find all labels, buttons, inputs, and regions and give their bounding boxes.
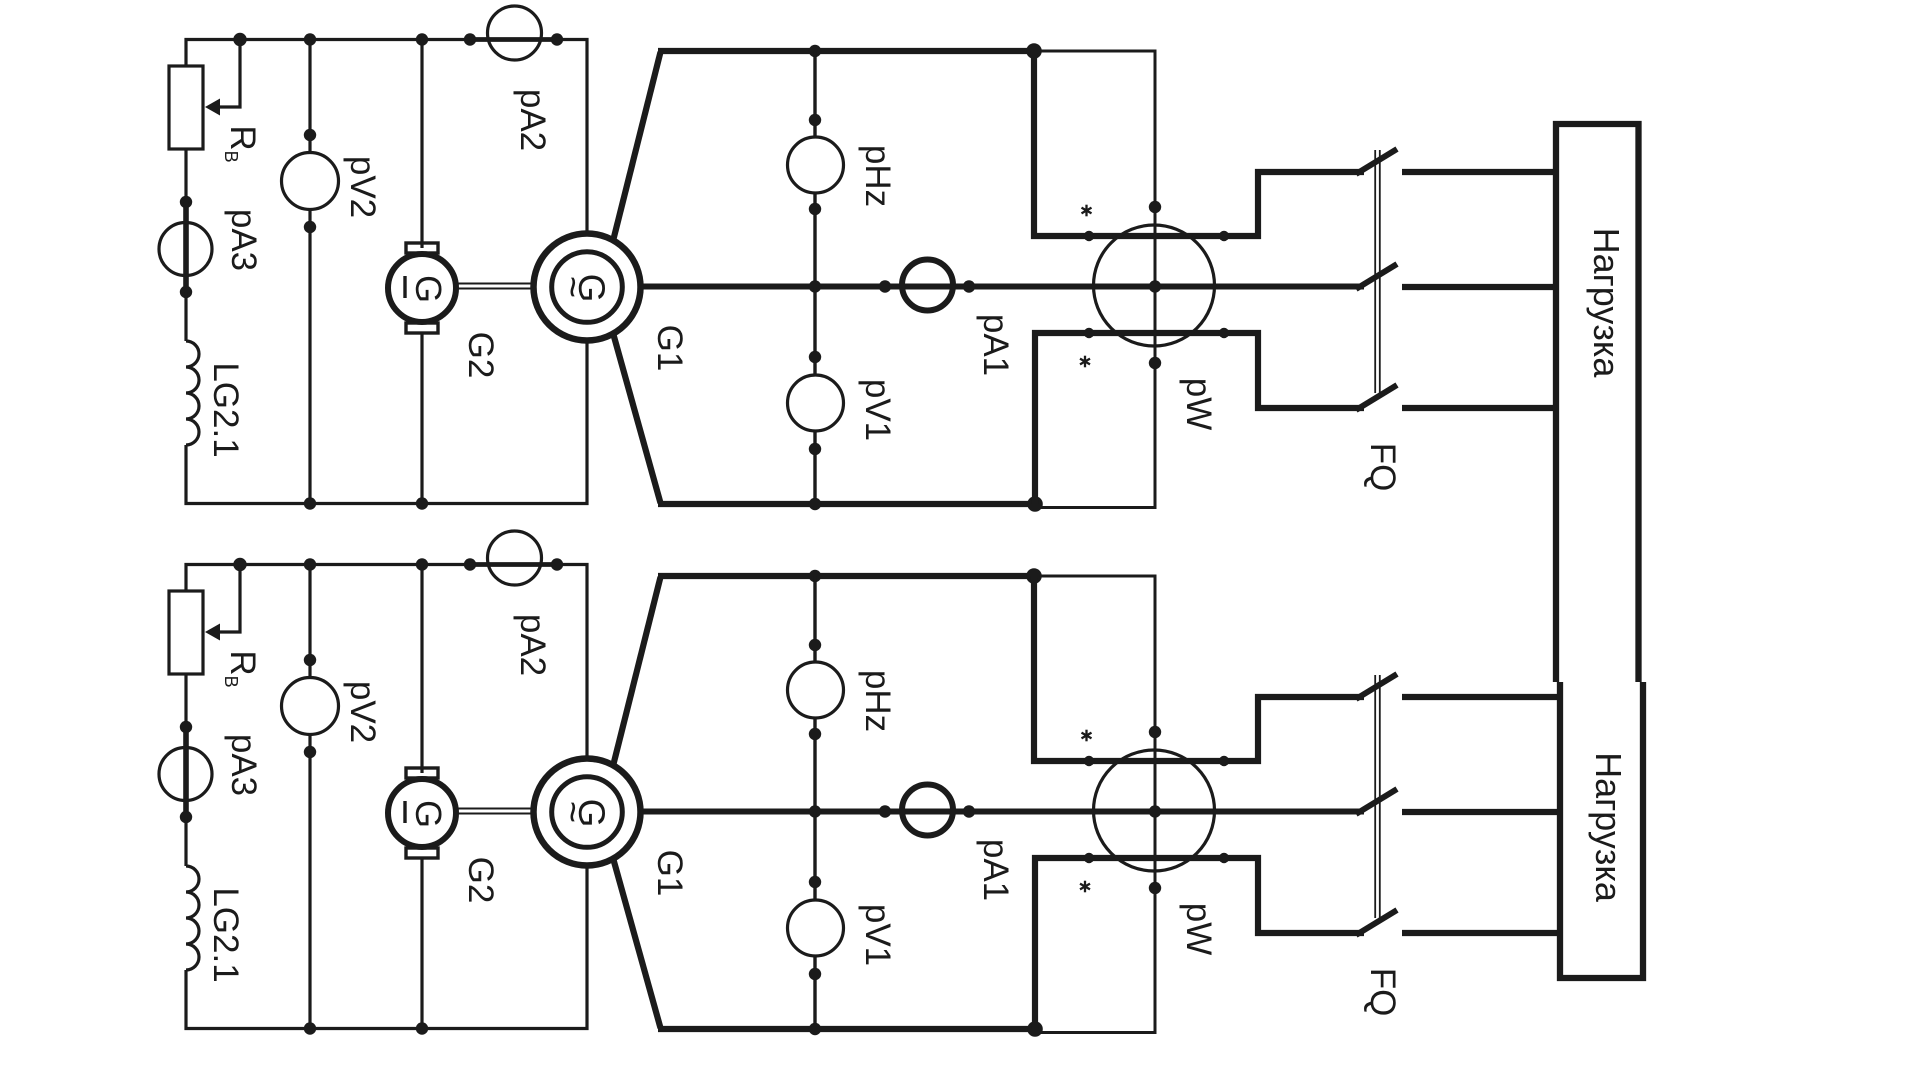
wire phase A line (bottom): [658, 573, 1034, 579]
load box Нагрузка (top): [1556, 124, 1639, 682]
svg-text:pA1: pA1: [976, 839, 1015, 901]
svg-text:pV1: pV1: [858, 379, 897, 441]
G2 DC bar symbol (top): [403, 276, 406, 298]
svg-text:Нагрузка: Нагрузка: [1588, 752, 1629, 903]
node pW bottom voltage terminal (top): [1149, 357, 1161, 369]
node pA1 right terminal (top): [963, 280, 975, 292]
wire G2 branch lower (bottom): [420, 858, 423, 1029]
node pW top coil right terminal (bottom): [1219, 756, 1229, 766]
node pHz phase A junction (bottom): [809, 570, 821, 582]
node pV2 top rail junction (top): [304, 33, 316, 45]
ammeter pA3 circle (top): [159, 223, 212, 276]
G2 lower brush (bottom): [406, 848, 438, 858]
wire phase C rise to pW bottom coil (top): [1035, 333, 1364, 504]
wire bottom rail of excitation circuit (bottom): [186, 863, 587, 1029]
svg-text:pHz: pHz: [858, 670, 897, 732]
svg-text:~: ~: [551, 801, 593, 823]
pW polarity asterisk bottom (bottom): [1084, 881, 1086, 893]
generator G1 outer circle (top): [534, 234, 641, 341]
svg-text:pV1: pV1: [858, 904, 897, 966]
switch FQ pole 1 blade (bottom): [1356, 674, 1397, 699]
wire RB to pA3 (top): [184, 149, 187, 204]
wire pV1 branch (top): [813, 287, 816, 505]
switch FQ linkage bar (bottom): [1375, 675, 1380, 918]
wire pW voltage tap thin loop (top): [1034, 51, 1155, 508]
wire phase A drop to pW top coil (bottom): [1034, 576, 1364, 761]
svg-text:Нагрузка: Нагрузка: [1586, 228, 1627, 379]
wire FQ pole 1 to load (bottom): [1402, 694, 1559, 700]
node G2 bottom rail junction (bottom): [416, 1022, 428, 1034]
inductor LG2.1 coil (bottom): [186, 866, 199, 970]
ammeter pA2 circle (bottom): [488, 531, 542, 585]
wire phase B line (top): [638, 284, 1364, 290]
node pV2 lower terminal (top): [304, 221, 316, 233]
wire thick through ammeter pA2 (top): [470, 37, 557, 42]
svg-text:pA3: pA3: [224, 209, 263, 271]
wire pV2 branch (bottom): [308, 565, 311, 1029]
ammeter pA3 circle (bottom): [159, 748, 212, 801]
G2 lower brush (top): [406, 323, 438, 333]
node pW bottom coil right terminal (top): [1219, 328, 1229, 338]
wire pHz branch (top): [813, 51, 816, 287]
wire pHz branch (bottom): [813, 576, 816, 812]
node pHz phase A junction (top): [809, 45, 821, 57]
ammeter pA1 circle (bottom): [902, 785, 953, 836]
wire phase C line (top): [658, 501, 1035, 507]
node pHz lower terminal (bottom): [809, 728, 821, 740]
node RB wiper tap junction (top): [233, 33, 246, 46]
node pW top coil right terminal (top): [1219, 231, 1229, 241]
node pA2 right terminal (bottom): [551, 558, 563, 570]
svg-text:pV2: pV2: [343, 156, 382, 218]
voltmeter pV2 circle (top): [282, 153, 339, 210]
wire G1 top slant (top): [613, 52, 661, 241]
generator G2 circle (top): [388, 254, 456, 322]
node pA2 left terminal (top): [464, 33, 476, 45]
pW polarity asterisk bottom (top): [1084, 356, 1086, 368]
shaft coupling G2-G1 (top): [458, 284, 532, 289]
wire phase B line (bottom): [638, 809, 1364, 815]
node pV1 phase C junction (top): [809, 498, 821, 510]
switch FQ pole 2 blade (top): [1356, 264, 1397, 289]
node pV2 upper terminal (top): [304, 129, 316, 141]
load box Нагрузка (bottom): [1560, 682, 1643, 978]
node pHz lower terminal (top): [809, 203, 821, 215]
ammeter pA1 circle (top): [902, 260, 953, 311]
node pA2 left terminal (bottom): [464, 558, 476, 570]
node pW center junction (bottom): [1149, 805, 1161, 817]
node pW bottom coil left terminal (top): [1084, 328, 1094, 338]
switch FQ pole 3 blade (top): [1356, 385, 1397, 410]
svg-text:pA1: pA1: [976, 314, 1015, 376]
svg-text:LG2.1: LG2.1: [206, 362, 245, 457]
svg-text:G1: G1: [650, 850, 689, 897]
ammeter pA2 circle (top): [488, 6, 542, 60]
generator G1 outer circle (bottom): [534, 759, 641, 866]
node phase A corner junction (bottom): [1026, 568, 1042, 584]
node G2 top rail junction (bottom): [416, 558, 428, 570]
generator G1 inner circle (top): [552, 252, 623, 323]
node pHz upper terminal (top): [809, 114, 821, 126]
node pHz upper terminal (bottom): [809, 639, 821, 651]
node phase A corner junction (top): [1026, 43, 1042, 59]
node pA3 bottom terminal (top): [180, 286, 192, 298]
svg-text:pV2: pV2: [343, 681, 382, 743]
node pW top coil left terminal (top): [1084, 231, 1094, 241]
wire top rail of excitation circuit (bottom): [186, 565, 587, 762]
wire pV2 branch (top): [308, 40, 311, 504]
wire RB wiper arm (top): [219, 40, 240, 108]
wattmeter pW circle (top): [1094, 225, 1215, 346]
node pV2 upper terminal (bottom): [304, 654, 316, 666]
node pV1 lower terminal (top): [809, 443, 821, 455]
voltmeter pV1 circle (top): [788, 375, 844, 431]
node phase C corner junction (bottom): [1027, 1021, 1043, 1037]
wire RB to pA3 (bottom): [184, 674, 187, 729]
generator G1 inner circle (bottom): [552, 777, 623, 848]
node phase B mid junction (top): [809, 280, 821, 292]
inductor LG2.1 coil (top): [186, 341, 199, 445]
frequency meter pHz circle (top): [788, 137, 844, 193]
pW polarity asterisk top (top): [1085, 205, 1087, 217]
node pW bottom coil right terminal (bottom): [1219, 853, 1229, 863]
node pW top coil left terminal (bottom): [1084, 756, 1094, 766]
svg-text:G: G: [408, 275, 449, 303]
wire pA3 to LG2.1 (bottom): [184, 817, 187, 866]
svg-text:FQ: FQ: [1363, 968, 1402, 1017]
svg-text:FQ: FQ: [1363, 443, 1402, 492]
pW polarity asterisk top (bottom): [1085, 730, 1087, 742]
generator G2 circle (bottom): [388, 779, 456, 847]
wire top rail of excitation circuit (top): [186, 40, 587, 237]
node phase C corner junction (top): [1027, 496, 1043, 512]
svg-text:pHz: pHz: [858, 145, 897, 207]
svg-text:G: G: [408, 800, 449, 828]
resistor RB rheostat body (top): [169, 66, 203, 149]
wire pW voltage tap thin loop (bottom): [1034, 576, 1155, 1033]
wire thick through ammeter pA3 (bottom): [183, 727, 189, 817]
svg-text:pA2: pA2: [513, 89, 552, 151]
svg-text:G1: G1: [650, 325, 689, 372]
resistor RB rheostat body (bottom): [169, 591, 203, 674]
svg-text:pW: pW: [1179, 903, 1218, 956]
wire FQ pole 2 to load (top): [1402, 284, 1559, 290]
node pW bottom coil left terminal (bottom): [1084, 853, 1094, 863]
wire FQ pole 2 to load (bottom): [1402, 809, 1559, 815]
wire phase C rise to pW bottom coil (bottom): [1035, 858, 1364, 1029]
node G2 top rail junction (top): [416, 33, 428, 45]
node RB wiper tap junction (bottom): [233, 558, 246, 571]
node pV1 upper terminal (bottom): [809, 876, 821, 888]
shaft coupling G2-G1 (bottom): [458, 809, 532, 814]
node phase B mid junction (bottom): [809, 805, 821, 817]
node pA1 left terminal (top): [879, 280, 891, 292]
svg-text:LG2.1: LG2.1: [206, 887, 245, 982]
node pA1 left terminal (bottom): [879, 805, 891, 817]
node pW center junction (top): [1149, 280, 1161, 292]
node pV2 bottom rail junction (bottom): [304, 1022, 316, 1034]
wire G1 bottom slant (bottom): [613, 858, 661, 1028]
node pV1 lower terminal (bottom): [809, 968, 821, 980]
switch FQ pole 2 blade (bottom): [1356, 789, 1397, 814]
node G2 bottom rail junction (top): [416, 497, 428, 509]
node pW top voltage terminal (top): [1149, 201, 1161, 213]
svg-text:pA2: pA2: [513, 614, 552, 676]
svg-text:pA3: pA3: [224, 734, 263, 796]
wire thick through ammeter pA3 (top): [183, 202, 189, 292]
wire G1 bottom slant (top): [613, 333, 661, 503]
node pA1 right terminal (bottom): [963, 805, 975, 817]
wire G2 branch upper (bottom): [420, 565, 423, 774]
wire FQ pole 3 to load (bottom): [1402, 930, 1559, 936]
wire pA3 to LG2.1 (top): [184, 292, 187, 341]
wire FQ pole 1 to load (top): [1402, 169, 1559, 175]
node pV2 top rail junction (bottom): [304, 558, 316, 570]
RB wiper arrowhead (top): [205, 99, 220, 116]
node pV2 bottom rail junction (top): [304, 497, 316, 509]
node pW bottom voltage terminal (bottom): [1149, 882, 1161, 894]
wire G2 branch upper (top): [420, 40, 423, 249]
frequency meter pHz circle (bottom): [788, 662, 844, 718]
wire G1 top slant (bottom): [613, 577, 661, 766]
svg-text:G2: G2: [461, 857, 500, 904]
svg-text:pW: pW: [1179, 378, 1218, 431]
wire phase C line (bottom): [658, 1026, 1035, 1032]
wire G2 branch lower (top): [420, 333, 423, 504]
voltmeter pV1 circle (bottom): [788, 900, 844, 956]
switch FQ linkage bar (top): [1375, 150, 1380, 393]
RB wiper arrowhead (bottom): [205, 624, 220, 641]
voltmeter pV2 circle (bottom): [282, 678, 339, 735]
G2 upper brush (top): [406, 243, 438, 253]
wire phase A drop to pW top coil (top): [1034, 51, 1364, 236]
G2 DC bar symbol (bottom): [403, 801, 406, 823]
node pV1 phase C junction (bottom): [809, 1023, 821, 1035]
node pA3 top terminal (bottom): [180, 721, 192, 733]
svg-text:G2: G2: [461, 332, 500, 379]
node pA3 bottom terminal (bottom): [180, 811, 192, 823]
wire RB wiper arm (bottom): [219, 565, 240, 633]
wire thick through ammeter pA2 (bottom): [470, 562, 557, 567]
wire FQ pole 3 to load (top): [1402, 405, 1559, 411]
node pV2 lower terminal (bottom): [304, 746, 316, 758]
node pW top voltage terminal (bottom): [1149, 726, 1161, 738]
G2 upper brush (bottom): [406, 768, 438, 778]
switch FQ pole 1 blade (top): [1356, 149, 1397, 174]
wire pV1 branch (bottom): [813, 812, 816, 1030]
wattmeter pW circle (bottom): [1094, 750, 1215, 871]
node pA3 top terminal (top): [180, 196, 192, 208]
node pV1 upper terminal (top): [809, 351, 821, 363]
switch FQ pole 3 blade (bottom): [1356, 910, 1397, 935]
svg-text:~: ~: [551, 276, 593, 298]
wire phase A line (top): [658, 48, 1034, 54]
wire bottom rail of excitation circuit (top): [186, 338, 587, 504]
node pA2 right terminal (top): [551, 33, 563, 45]
